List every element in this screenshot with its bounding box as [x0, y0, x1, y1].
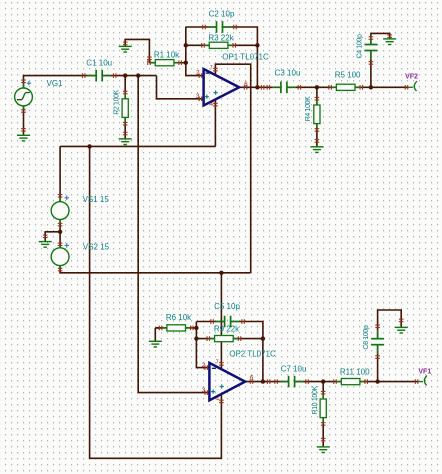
svg-text:C3 10u: C3 10u	[275, 68, 301, 77]
svg-text:OP1 TL071C: OP1 TL071C	[222, 53, 269, 62]
svg-text:R5 100: R5 100	[335, 71, 361, 80]
svg-text:R3 22k: R3 22k	[208, 34, 234, 43]
svg-text:C7 10u: C7 10u	[281, 364, 307, 373]
svg-text:R2 100K: R2 100K	[114, 89, 121, 114]
svg-text:R10 100K: R10 100K	[312, 385, 319, 414]
svg-text:C1 10u: C1 10u	[86, 58, 112, 67]
svg-text:VF2: VF2	[405, 74, 418, 81]
svg-text:R6 10k: R6 10k	[166, 313, 192, 322]
svg-text:OP2 TL071C: OP2 TL071C	[229, 349, 276, 358]
svg-text:VF1: VF1	[418, 369, 431, 376]
svg-text:7: 7	[216, 360, 219, 366]
svg-text:VS2 15: VS2 15	[83, 242, 110, 251]
svg-text:VS1 15: VS1 15	[83, 195, 110, 204]
svg-text:R4 100K: R4 100K	[305, 96, 312, 121]
svg-text:7: 7	[210, 66, 213, 72]
svg-text:C5 10p: C5 10p	[214, 302, 240, 311]
svg-text:VG1: VG1	[46, 79, 63, 88]
svg-text:4: 4	[210, 102, 213, 108]
svg-text:C4 100p: C4 100p	[357, 34, 364, 58]
svg-text:C2 10p: C2 10p	[209, 10, 235, 19]
svg-text:R9 22k: R9 22k	[214, 324, 240, 333]
svg-text:R1 10k: R1 10k	[154, 51, 180, 60]
svg-text:R11 100: R11 100	[340, 367, 370, 376]
svg-text:4: 4	[216, 396, 219, 402]
svg-text:C8 100p: C8 100p	[363, 325, 370, 349]
